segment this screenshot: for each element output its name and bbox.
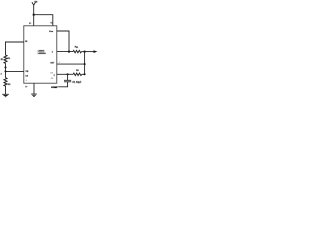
wire junction to R2 [5, 71, 7, 77]
wire output bus down [84, 52, 86, 75]
wire right pin B (y51.6) to resistor RSC [57, 51, 73, 53]
wire cap tap down [67, 74, 69, 80]
wire RSC to output node [82, 51, 94, 53]
svg-text:Vsw: Vsw [49, 31, 54, 33]
svg-text:2: 2 [1, 74, 2, 76]
junction dot divider upper [4, 66, 6, 68]
wire R2 to ground [5, 86, 7, 94]
junction dot output line left [68, 50, 70, 52]
resistor RSC [73, 50, 82, 52]
svg-text:9: 9 [59, 62, 60, 64]
wire VIN stub to box top left pin [33, 15, 35, 26]
svg-text:C1 10μF: C1 10μF [72, 82, 82, 84]
wire R3 to bus [82, 73, 85, 75]
junction dot output node [83, 50, 85, 52]
ground (left divider, earth style) [2, 94, 9, 96]
wire left bus top to left pin 1 [6, 42, 24, 55]
svg-text:2: 2 [52, 51, 53, 53]
capacitor C1 plates [64, 80, 71, 82]
wire R1 to junction [5, 63, 7, 71]
junction dot cap tap [67, 73, 69, 75]
svg-text:COMP: COMP [51, 87, 58, 89]
resistor R2 [4, 78, 7, 86]
junction dot divider tap [4, 70, 6, 72]
resistor R1 [4, 55, 7, 63]
wire cap bottom stub [58, 82, 67, 87]
node VIN input arrow (down-pointing open head) [32, 2, 36, 15]
ground (under box, earth style) [31, 94, 37, 96]
junction dot bus pin C [84, 63, 86, 65]
resistor R3 [73, 73, 82, 75]
svg-text:VIN: VIN [34, 1, 37, 3]
junction dot VIN [33, 14, 35, 16]
wire ground stub under box [33, 83, 35, 94]
wire divider tap to box left pin 2 [6, 70, 24, 72]
svg-text:LM305A: LM305A [38, 52, 46, 55]
arrowhead VOUT [94, 50, 98, 53]
wire right pin C (y64.1) to bus [57, 63, 85, 65]
op-amp U1 regulator box [24, 26, 57, 83]
background [0, 0, 100, 100]
wire right pin D (y74.3) to resistor R3 [57, 73, 73, 75]
junction dot bus pin D [84, 73, 86, 75]
wire VIN top to box top right pin [34, 15, 53, 26]
wire right pin A (y31) over to output bus [57, 31, 69, 52]
